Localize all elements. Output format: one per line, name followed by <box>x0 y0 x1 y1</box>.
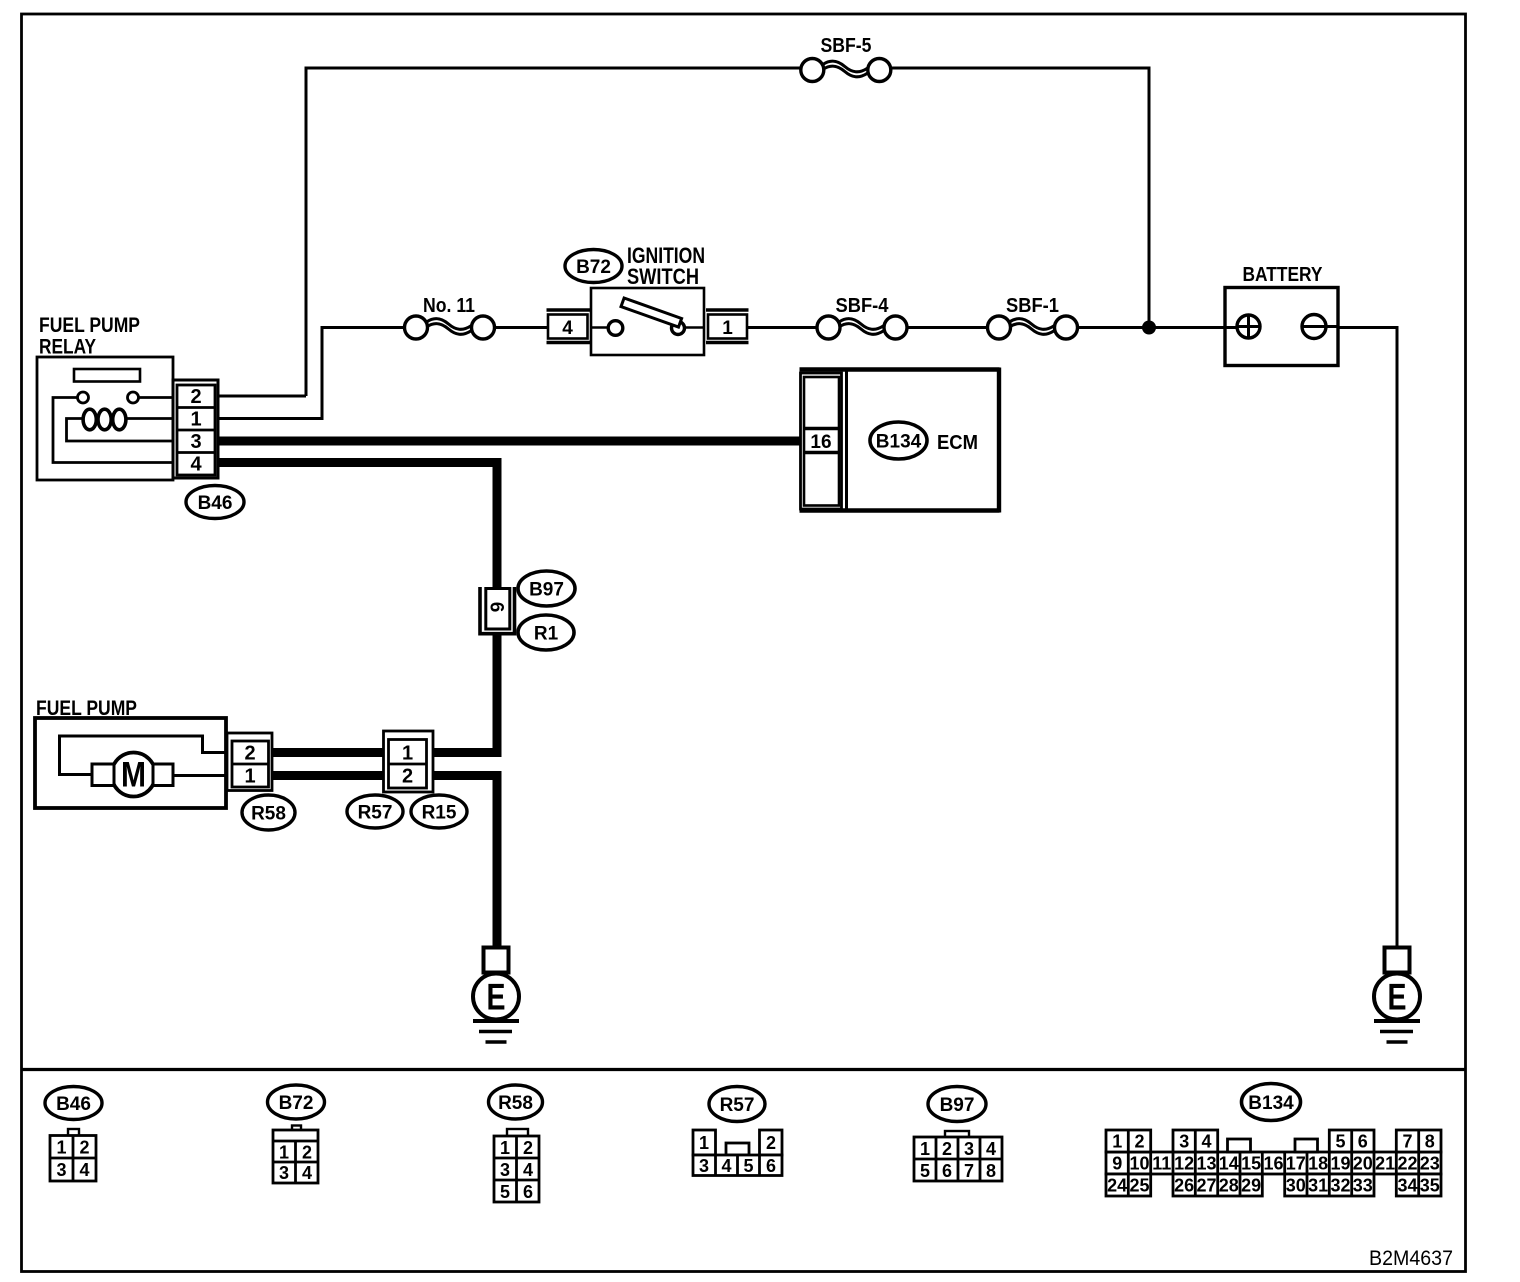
wire: fuse No. 11 to ignition switch pin 4 <box>495 326 553 329</box>
motor M <box>112 753 156 797</box>
connector R58 pin block <box>227 733 272 791</box>
svg-text:1: 1 <box>920 1139 930 1159</box>
wire: left contact to pin 4 <box>53 398 178 463</box>
ground right (E) <box>1374 948 1420 1043</box>
svg-text:3: 3 <box>279 1163 289 1183</box>
svg-text:13: 13 <box>1196 1154 1216 1174</box>
svg-text:33: 33 <box>1353 1176 1373 1196</box>
connector oval B97 <box>518 571 575 606</box>
wire: motor to pin 1 <box>173 774 232 777</box>
legend connector R57 <box>693 1130 782 1176</box>
switch contact right <box>685 326 705 329</box>
connector R57/R15 pin block <box>384 731 434 792</box>
legend oval B134 <box>1242 1084 1301 1121</box>
wire: coil to pin 3 <box>67 419 179 442</box>
svg-text:32: 32 <box>1330 1176 1350 1196</box>
svg-text:1: 1 <box>699 1133 709 1153</box>
svg-text:1: 1 <box>56 1138 66 1158</box>
ECM pin 16 cell <box>804 429 839 453</box>
svg-text:5: 5 <box>1335 1132 1345 1152</box>
svg-text:B2M4637: B2M4637 <box>1369 1247 1453 1270</box>
svg-text:4: 4 <box>986 1139 996 1159</box>
svg-text:ECM: ECM <box>937 432 978 454</box>
wire: right contact to pin 2 <box>139 396 179 399</box>
svg-text:R57: R57 <box>358 803 393 824</box>
thick wire: relay pin 3 to ECM pin 16 <box>216 437 802 446</box>
connector oval B46 <box>186 486 244 519</box>
svg-text:29: 29 <box>1241 1176 1261 1196</box>
thick wire: fuel pump R58 pin 1 to R57 pin 2 <box>270 771 390 780</box>
svg-text:1: 1 <box>279 1143 289 1163</box>
svg-text:1: 1 <box>722 318 733 339</box>
svg-text:11: 11 <box>1152 1154 1171 1174</box>
wire: coil to pin 1 <box>126 417 178 420</box>
legend connector B97 <box>914 1131 1002 1181</box>
fuse SBF-4 <box>817 316 907 339</box>
junction node at battery feed <box>1142 321 1156 335</box>
fuse SBF-5 <box>801 59 891 82</box>
svg-text:12: 12 <box>1174 1154 1194 1174</box>
svg-text:SBF-1: SBF-1 <box>1006 295 1059 317</box>
svg-text:4: 4 <box>562 318 573 339</box>
svg-text:4: 4 <box>523 1160 533 1180</box>
svg-text:2: 2 <box>402 766 413 788</box>
svg-text:6: 6 <box>766 1156 776 1176</box>
legend connector B72 <box>273 1126 318 1184</box>
wire: relay pin 2 lead <box>216 395 306 398</box>
fuse No. 11 <box>405 316 495 339</box>
relay contact left <box>78 392 89 403</box>
wire stub to positive terminal <box>1223 326 1237 329</box>
svg-text:1: 1 <box>500 1138 510 1158</box>
svg-text:2: 2 <box>302 1143 312 1163</box>
svg-text:4: 4 <box>1201 1132 1211 1152</box>
svg-text:3: 3 <box>190 431 201 453</box>
svg-text:28: 28 <box>1219 1176 1239 1196</box>
wire: SBF-1 to battery positive terminal <box>1078 326 1241 329</box>
legend oval B46 <box>45 1087 102 1120</box>
svg-text:10: 10 <box>1129 1154 1149 1174</box>
wire: relay pin 1 up and right to fuse No. 11 <box>216 328 405 419</box>
svg-text:27: 27 <box>1196 1176 1216 1196</box>
connector oval B72 <box>565 250 622 283</box>
svg-text:1: 1 <box>190 409 201 431</box>
battery positive terminal <box>1237 315 1260 338</box>
battery <box>1223 288 1338 366</box>
svg-text:2: 2 <box>190 386 201 408</box>
legend oval R57 <box>709 1087 765 1122</box>
connector oval R57 <box>347 795 403 828</box>
svg-text:B97: B97 <box>940 1095 975 1116</box>
svg-text:20: 20 <box>1353 1154 1373 1174</box>
svg-text:7: 7 <box>1402 1132 1412 1152</box>
connector oval R15 <box>411 795 467 828</box>
svg-text:3: 3 <box>56 1160 66 1180</box>
legend oval B72 <box>268 1085 325 1119</box>
connector oval R58 <box>242 795 295 830</box>
svg-text:R15: R15 <box>422 803 457 824</box>
svg-text:B72: B72 <box>279 1093 314 1114</box>
legend connector B134 <box>1106 1130 1441 1196</box>
svg-text:3: 3 <box>699 1156 709 1176</box>
legend oval B97 <box>928 1087 986 1122</box>
battery negative terminal <box>1302 315 1326 339</box>
ignition switch B72 <box>547 288 749 355</box>
svg-text:6: 6 <box>486 602 507 613</box>
svg-text:3: 3 <box>1179 1132 1189 1152</box>
svg-text:4: 4 <box>190 454 202 476</box>
pin 1 connector shell <box>706 310 749 343</box>
svg-text:M: M <box>121 756 146 795</box>
svg-text:B134: B134 <box>876 432 922 453</box>
svg-text:No. 11: No. 11 <box>423 295 475 317</box>
svg-text:2: 2 <box>942 1139 952 1159</box>
svg-text:30: 30 <box>1286 1176 1306 1196</box>
svg-text:19: 19 <box>1330 1154 1350 1174</box>
switch lever <box>621 298 682 327</box>
svg-text:BATTERY: BATTERY <box>1243 264 1324 286</box>
svg-text:16: 16 <box>1263 1154 1283 1174</box>
svg-text:4: 4 <box>79 1160 89 1180</box>
wire: ignition switch pin 1 to fuse SBF-4 <box>744 326 817 329</box>
svg-text:21: 21 <box>1375 1154 1395 1174</box>
svg-text:4: 4 <box>721 1156 731 1176</box>
connector oval B134 <box>870 422 927 459</box>
svg-text:25: 25 <box>1129 1176 1149 1196</box>
svg-text:R58: R58 <box>251 804 286 825</box>
thick wire: relay pin 4 down to inline connector B97/R1 <box>216 463 497 590</box>
svg-text:SWITCH: SWITCH <box>627 264 699 289</box>
svg-text:B97: B97 <box>529 580 564 601</box>
svg-text:2: 2 <box>79 1138 89 1158</box>
svg-text:6: 6 <box>523 1182 533 1202</box>
svg-text:24: 24 <box>1107 1176 1127 1196</box>
legend connector B46 <box>50 1129 96 1181</box>
connector B46 pin block <box>173 380 218 478</box>
svg-text:FUEL PUMP: FUEL PUMP <box>36 697 137 720</box>
fuse SBF-1 <box>988 316 1078 339</box>
fuel pump <box>35 718 232 808</box>
svg-text:5: 5 <box>743 1156 753 1176</box>
fuel pump relay <box>37 357 178 480</box>
svg-text:35: 35 <box>1420 1176 1440 1196</box>
svg-text:4: 4 <box>302 1163 312 1183</box>
svg-text:R57: R57 <box>720 1095 755 1116</box>
wire: SBF-4 to SBF-1 <box>907 326 989 329</box>
svg-text:7: 7 <box>964 1161 974 1181</box>
svg-text:14: 14 <box>1219 1154 1239 1174</box>
switch contact left <box>591 326 609 329</box>
svg-text:2: 2 <box>766 1133 776 1153</box>
svg-text:2: 2 <box>244 743 255 765</box>
relay contact right <box>128 392 139 403</box>
svg-text:3: 3 <box>964 1139 974 1159</box>
connector oval R1 <box>518 615 574 650</box>
svg-text:B134: B134 <box>1248 1093 1294 1114</box>
svg-text:26: 26 <box>1174 1176 1194 1196</box>
relay contact bar <box>74 369 140 382</box>
svg-text:B46: B46 <box>56 1094 91 1115</box>
relay coil <box>83 409 96 430</box>
svg-text:6: 6 <box>1358 1132 1368 1152</box>
pin 4 connector shell <box>547 310 591 343</box>
svg-text:8: 8 <box>986 1161 996 1181</box>
svg-text:RELAY: RELAY <box>39 336 96 359</box>
svg-text:9: 9 <box>1112 1154 1122 1174</box>
legend oval R58 <box>489 1085 543 1119</box>
svg-text:R58: R58 <box>498 1093 533 1114</box>
svg-text:2: 2 <box>523 1138 533 1158</box>
svg-text:18: 18 <box>1308 1154 1328 1174</box>
svg-text:FUEL PUMP: FUEL PUMP <box>39 314 140 337</box>
ECM B134 <box>800 368 1000 513</box>
legend connector R58 <box>494 1129 539 1202</box>
svg-text:6: 6 <box>942 1161 952 1181</box>
svg-text:23: 23 <box>1420 1154 1440 1174</box>
svg-text:16: 16 <box>810 432 831 453</box>
inline connector pin 6 (B97/R1) <box>480 587 515 634</box>
svg-text:22: 22 <box>1397 1154 1417 1174</box>
svg-text:15: 15 <box>1241 1154 1261 1174</box>
thick wire: inline connector down to R57 pin 1 <box>426 634 497 753</box>
switch body <box>591 288 704 355</box>
svg-text:1: 1 <box>244 766 255 788</box>
svg-text:SBF-5: SBF-5 <box>821 35 872 57</box>
svg-text:SBF-4: SBF-4 <box>836 295 890 317</box>
svg-text:17: 17 <box>1286 1154 1306 1174</box>
svg-text:1: 1 <box>1112 1132 1122 1152</box>
svg-text:2: 2 <box>1134 1132 1144 1152</box>
svg-text:8: 8 <box>1425 1132 1435 1152</box>
svg-text:5: 5 <box>500 1182 510 1202</box>
svg-text:5: 5 <box>920 1161 930 1181</box>
svg-text:34: 34 <box>1397 1176 1417 1196</box>
svg-text:3: 3 <box>500 1160 510 1180</box>
thick wire: R57 pin 2 to left body ground <box>426 776 497 949</box>
svg-text:1: 1 <box>402 743 413 765</box>
ground left (E) <box>473 948 519 1043</box>
wire: SBF-5 to battery positive junction <box>890 68 1149 328</box>
svg-text:B72: B72 <box>576 257 611 278</box>
svg-text:B46: B46 <box>198 493 233 514</box>
wire: battery negative to right body ground <box>1326 328 1397 949</box>
svg-text:R1: R1 <box>534 624 559 645</box>
svg-text:31: 31 <box>1308 1176 1328 1196</box>
wire: motor to pin 2 <box>60 736 233 775</box>
wire: relay pin 2 up to top rail toward SBF-5 <box>306 68 802 396</box>
thick wire: fuel pump R58 pin 2 to R57 pin 1 <box>270 748 390 757</box>
